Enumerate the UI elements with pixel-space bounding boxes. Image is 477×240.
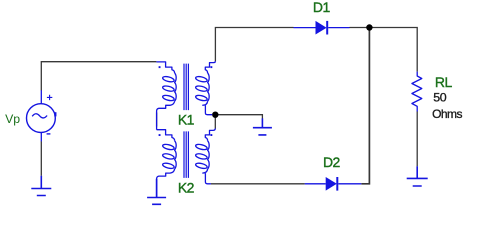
svg-text:K1: K1 [178,112,195,128]
svg-text:K2: K2 [178,180,195,196]
svg-text:RL: RL [435,74,453,90]
svg-text:D1: D1 [313,0,331,15]
svg-text:Vp: Vp [5,112,20,126]
svg-text:50: 50 [433,90,447,104]
svg-text:D2: D2 [323,154,341,170]
svg-text:Ohms: Ohms [432,107,462,121]
